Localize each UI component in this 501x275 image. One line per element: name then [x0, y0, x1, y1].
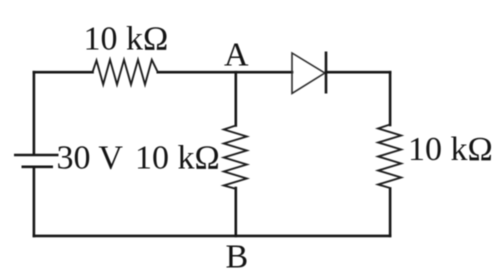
wire middle vertical lower (R2 to node B): [235, 188, 238, 236]
wire top horizontal (R1 to diode anode): [158, 71, 292, 74]
wire middle vertical upper (node A to R2): [235, 72, 238, 125]
wire right vertical lower (R3 to bottom corner): [389, 189, 392, 236]
resistor R3 10 kOhm right vertical zigzag: [378, 125, 401, 189]
svg-text:30 V: 30 V: [57, 140, 124, 177]
svg-text:10 kΩ: 10 kΩ: [135, 140, 220, 177]
resistor R1 10 kOhm horizontal zigzag: [93, 60, 158, 85]
svg-text:10 kΩ: 10 kΩ: [408, 131, 493, 168]
wire diode cathode to top-right corner: [326, 71, 390, 74]
diode D1 cathode bar: [325, 52, 328, 94]
svg-text:10 kΩ: 10 kΩ: [84, 21, 169, 58]
wire left vertical upper (corner to battery): [33, 72, 36, 154]
wire top-left horizontal (left corner to R1): [34, 71, 93, 74]
wire left vertical lower (battery to bottom corner): [33, 168, 36, 236]
battery V1 long plate: [14, 154, 59, 157]
resistor R2 10 kOhm middle vertical zigzag: [224, 126, 247, 189]
svg-text:A: A: [224, 37, 249, 74]
battery V1 short plate: [22, 166, 54, 169]
diode D1 triangle (anode): [292, 53, 325, 93]
svg-text:B: B: [226, 239, 249, 275]
wire right vertical upper (corner to R3): [389, 72, 392, 125]
wire bottom horizontal: [34, 235, 390, 238]
